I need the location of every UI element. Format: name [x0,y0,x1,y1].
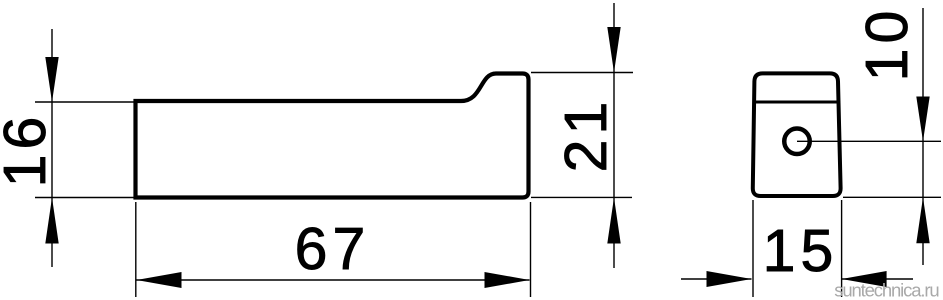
dimension 10 arrow up [916,197,929,243]
hole circle [784,129,810,155]
dimension 21 arrow up [607,198,620,244]
dimension 21 label [553,97,619,173]
dimension 16 line [51,29,53,267]
dimension 21 line [613,3,615,268]
svg-text:21: 21 [553,97,619,173]
front view outline [753,73,841,196]
dimension 15 arrow left-pointing [842,271,887,287]
dimension 67 extension line left [135,202,137,297]
side view outline [136,74,529,198]
dimension 10 label [854,6,920,82]
dimension 21 extension line top [531,72,633,74]
dimension 67 extension line right [530,202,532,297]
dimension 15 arrow right-pointing [707,271,752,287]
dimension 15 line right segment [842,278,913,280]
dimension 67 line [137,279,530,281]
dimension 15 extension line right [841,200,843,297]
svg-text:67: 67 [295,216,371,282]
dimension 16 extension line bottom [35,197,136,199]
dimension 16 arrow up [45,198,58,244]
dimension 10 extension line bottom [843,196,941,198]
dimension 21 extension line bottom [531,196,632,198]
front view lip edge line [755,101,839,104]
dimension 10 line [922,8,924,265]
svg-text:15: 15 [763,218,839,284]
svg-text:suntechnica.ru: suntechnica.ru [834,280,939,300]
dimension 16 extension line top [35,101,136,103]
dimension 67 arrow left [137,272,182,288]
dimension 21 arrow down [607,27,620,73]
svg-text:10: 10 [854,6,920,82]
dimension 15 line left segment [681,278,752,280]
dimension 67 label [295,216,371,282]
dimension 10 arrow down [916,97,929,142]
watermark suntechnica.ru [834,280,939,300]
dimension 67 arrow right [485,272,530,288]
dimension 15 extension line left [752,200,754,297]
dimension 15 label [763,218,839,284]
svg-text:16: 16 [0,112,58,188]
hole centerline [797,140,941,142]
dimension 16 label [0,112,58,188]
dimension 16 arrow down [45,57,58,102]
